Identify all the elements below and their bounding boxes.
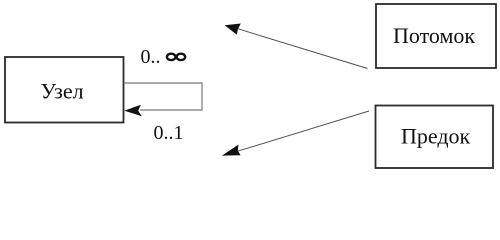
node Узел box [5,57,124,123]
wire arrow from Предок to lower-left [236,111,369,152]
box Предок [376,106,494,169]
svg-text:Предок: Предок [401,124,471,149]
arrowhead (lower arrow) [222,145,241,156]
svg-text:0..: 0.. [141,46,161,68]
svg-text:0..1: 0..1 [154,122,184,144]
arrowhead into Узел (self-loop) [124,105,141,116]
label ∞ symbol [167,54,185,60]
svg-text:Потомок: Потомок [393,23,475,48]
svg-text:Узел: Узел [41,79,84,104]
wire arrow from Потомок to upper-left [238,29,368,69]
wire self-loop on Узел [124,83,203,110]
arrowhead (upper arrow) [225,24,241,35]
box Потомок [376,4,496,68]
